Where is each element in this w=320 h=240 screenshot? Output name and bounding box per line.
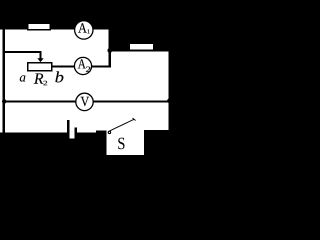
voltmeter V circle — [76, 93, 93, 110]
wire right vertical — [169, 49, 172, 130]
node junction dot, R1 branch T — [107, 48, 112, 53]
resistor R1 (right box) — [130, 43, 154, 50]
rheostat R2 box — [28, 63, 52, 71]
node b label — [55, 71, 63, 82]
rheostat slider stem — [40, 53, 42, 59]
wire voltmeter row — [2, 100, 171, 102]
switch S label S — [118, 138, 124, 150]
wire middle vertical — [109, 27, 112, 67]
wire rheostat to A2 to middle vertical — [52, 65, 111, 67]
ammeter A1 subscript 1 — [87, 29, 89, 33]
switch S lever tip — [133, 118, 136, 120]
background band below switch pivot — [96, 131, 107, 161]
wire top horizontal — [2, 27, 111, 29]
ammeter A1 letter A — [78, 23, 87, 32]
paper background — [0, 0, 178, 160]
resistor (top box) — [28, 24, 50, 30]
battery gap white notch — [70, 133, 75, 139]
ammeter A2 letter A — [78, 59, 86, 68]
battery short plate — [74, 128, 77, 134]
battery long plate — [67, 120, 70, 134]
background band top-left — [0, 0, 111, 29]
wire row2 horizontal to slider — [2, 51, 41, 53]
node junction dot, voltmeter row left — [2, 99, 6, 103]
wire R1 row horizontal — [109, 49, 172, 51]
ammeter A2 circle — [74, 57, 91, 74]
background margin right — [172, 0, 179, 160]
rheostat R2 label subscript 2 — [43, 81, 47, 85]
switch S lever — [110, 119, 134, 131]
node junction dot, voltmeter row right — [167, 98, 172, 103]
ammeter A2 subscript 2 — [86, 67, 90, 72]
ammeter A1 circle — [75, 21, 93, 39]
rheostat slider arrowhead — [37, 58, 43, 62]
rheostat R2 label R — [34, 73, 44, 83]
background band bottom-right — [144, 130, 172, 160]
switch S pivot ring — [108, 131, 110, 133]
background band below switch — [107, 155, 144, 160]
background band top-right — [111, 0, 171, 49]
wire left vertical — [2, 28, 5, 133]
voltmeter V letter V — [81, 97, 89, 106]
background band bottom-left — [0, 133, 96, 160]
node a label — [20, 75, 26, 81]
